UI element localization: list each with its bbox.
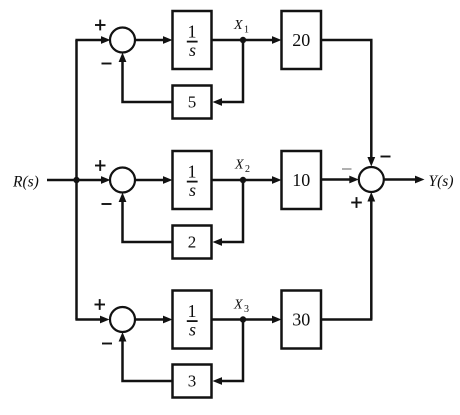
svg-text:2: 2 (188, 233, 197, 252)
wire S1 to integrator 1 (135, 39, 164, 42)
minus sign S3 (102, 343, 112, 345)
node branch junction (73, 177, 79, 183)
svg-text:3: 3 (244, 304, 249, 315)
svg-text:X: X (234, 158, 244, 173)
svg-text:30: 30 (292, 310, 310, 330)
wire X1 down to block 5 (221, 41, 243, 102)
integrator block 1/s (row 2) (173, 151, 212, 209)
label X3 (233, 298, 249, 316)
minus sign S4 left (faint) (342, 168, 352, 170)
wire integrator 3 to gain 30 (212, 318, 273, 321)
svg-text:X: X (233, 298, 243, 313)
summing junction S1 (110, 28, 135, 53)
plus sign S4 bottom (351, 197, 362, 208)
svg-text:10: 10 (292, 170, 310, 190)
wire block 5 to S1 minus input (123, 61, 173, 102)
label X2 (234, 158, 250, 176)
minus sign S2 (102, 203, 112, 205)
node X2 dot (240, 177, 246, 183)
wire X2 down to block 2 (221, 181, 243, 242)
wire gain 10 to summer S4 left (321, 178, 350, 181)
gain block 10 (282, 151, 322, 209)
svg-text:s: s (189, 320, 196, 340)
node X1 dot (240, 37, 246, 43)
plus sign S1 (95, 20, 106, 31)
svg-text:5: 5 (188, 93, 197, 112)
wire block 2 to S2 minus input (123, 201, 173, 242)
svg-text:Y(s): Y(s) (429, 173, 454, 190)
wire block 3 to S3 minus input (123, 341, 173, 382)
plus sign S2 (95, 160, 106, 171)
svg-text:s: s (189, 180, 196, 200)
wire S4 to output (384, 178, 416, 181)
feedback block 3 (173, 365, 212, 398)
svg-text:R(s): R(s) (12, 174, 39, 191)
wire integrator 2 to gain 10 (212, 179, 273, 182)
wire R(s) input (47, 179, 102, 182)
wire S2 to integrator 2 (135, 179, 164, 182)
svg-text:2: 2 (245, 164, 250, 175)
summing junction S3 (110, 307, 135, 332)
gain block 20 (282, 11, 322, 69)
wire S4 bottom input from gain 30 (370, 201, 373, 320)
svg-text:20: 20 (292, 30, 310, 50)
svg-text:s: s (189, 40, 196, 60)
wire integrator 1 to gain 20 (212, 39, 273, 42)
plus sign S3 (95, 299, 106, 310)
integrator block 1/s (row 1) (173, 11, 212, 69)
wire gain 20 to summer S4 top (321, 40, 371, 159)
wire spine to summer S1 (75, 39, 102, 42)
feedback block 5 (173, 86, 212, 119)
wire gain 30 to riser (321, 318, 372, 321)
svg-text:1: 1 (188, 301, 197, 321)
node X3 dot (240, 316, 246, 322)
svg-text:1: 1 (188, 162, 197, 182)
summing junction S2 (110, 168, 135, 193)
minus sign S1 (102, 63, 112, 65)
gain block 30 (282, 291, 322, 349)
integrator block 1/s (row 3) (173, 291, 212, 349)
svg-text:1: 1 (244, 25, 249, 36)
wire X3 down to block 3 (221, 321, 243, 382)
svg-text:1: 1 (188, 22, 197, 42)
svg-text:3: 3 (188, 372, 197, 391)
wire left spine (75, 40, 78, 320)
feedback block 2 (173, 226, 212, 259)
minus sign S4 top (381, 156, 391, 158)
wire spine to summer S3 (75, 318, 101, 321)
summing junction S4 (359, 167, 384, 192)
svg-text:X: X (233, 18, 243, 33)
label X1 (233, 18, 249, 36)
wire S3 to integrator 3 (135, 318, 164, 321)
